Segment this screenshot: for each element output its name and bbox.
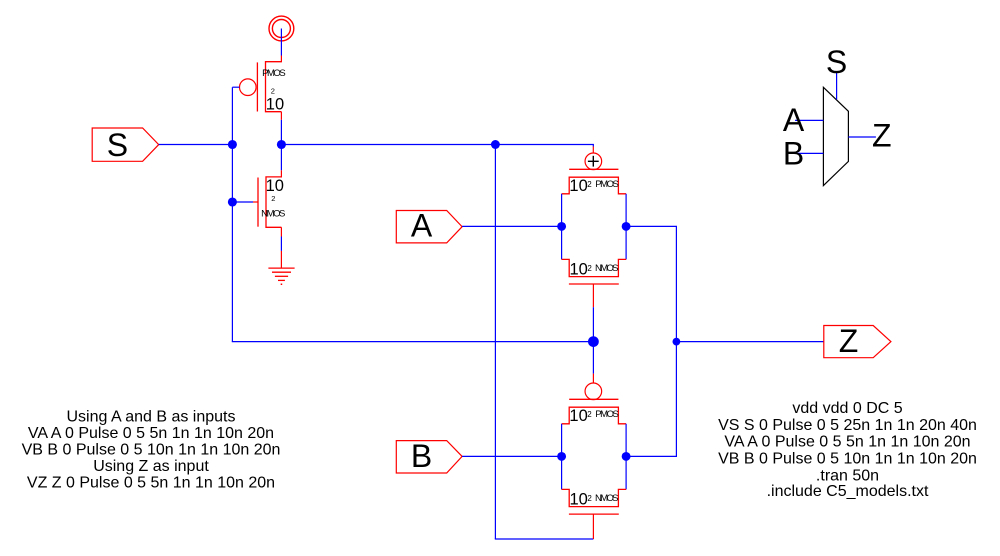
wire B gate left rail	[561, 424, 563, 490]
svg-text:NMOS: NMOS	[595, 493, 619, 504]
node S to AN/BP gates junction	[588, 336, 599, 347]
wire Sbar bottom horizontal	[495, 538, 594, 540]
svg-text:A: A	[783, 102, 805, 138]
wire S line down to B gate pmos bubble	[592, 342, 594, 383]
note block left	[22, 408, 281, 491]
svg-text:2: 2	[271, 194, 275, 203]
transistor M1 PMOS (inverter pull-up)	[240, 62, 282, 112]
svg-text:PMOS: PMOS	[595, 179, 619, 190]
svg-text:B: B	[411, 438, 432, 474]
wire B flag to transmission gate	[462, 455, 561, 457]
wire M4 gate to S line	[592, 284, 594, 342]
flag Z output	[824, 323, 891, 359]
wire M2 source to ground	[280, 227, 282, 268]
node inverter output	[277, 140, 286, 149]
svg-text:PMOS: PMOS	[262, 68, 286, 79]
svg-text:NMOS: NMOS	[261, 209, 285, 220]
svg-text:10: 10	[569, 407, 587, 425]
svg-text:2: 2	[271, 86, 275, 95]
wire S flag to gate line	[159, 144, 233, 146]
transistor M2 NMOS (inverter pull-down)	[258, 145, 281, 228]
wire Z junction to flag	[676, 341, 823, 343]
transistor M5 PMOS (transmission gate B)	[562, 383, 627, 424]
svg-text:Z: Z	[872, 117, 892, 153]
svg-text:2: 2	[587, 180, 592, 189]
ground	[268, 268, 294, 285]
svg-text:Using A and B as inputs: Using A and B as inputs	[67, 408, 236, 425]
node M2 gate junction	[228, 197, 237, 206]
svg-text:VZ Z 0 Pulse 0 5 5n 1n 1n 10n: VZ Z 0 Pulse 0 5 5n 1n 1n 10n 20n	[27, 474, 275, 491]
svg-text:2: 2	[587, 494, 592, 503]
flag A input	[396, 208, 462, 244]
node A right junction	[622, 222, 631, 231]
svg-text:VS S 0 Pulse 0 5 25n 1n 1n 20n: VS S 0 Pulse 0 5 25n 1n 1n 20n 40n	[718, 417, 977, 434]
node S junction	[228, 140, 237, 149]
flag S input	[92, 127, 159, 163]
wire mux Z pin	[848, 136, 876, 138]
svg-text:S: S	[107, 127, 128, 163]
svg-text:vdd vdd 0 DC 5: vdd vdd 0 DC 5	[792, 400, 902, 417]
wire A flag to transmission gate	[462, 225, 561, 227]
mux symbol U1	[823, 87, 848, 185]
wire M6 gate down to Sbar bottom	[592, 514, 594, 539]
wire vdd to M1 source	[280, 29, 282, 63]
wire B gate right rail	[625, 424, 627, 490]
transistor M4 NMOS (transmission gate A)	[562, 259, 627, 284]
wire Sbar down to A gate pmos bubble	[592, 145, 594, 154]
wire S line to transmission gates	[232, 341, 594, 343]
svg-text:A: A	[411, 208, 433, 244]
wire A gate left rail	[561, 194, 563, 260]
svg-text:.include C5_models.txt: .include C5_models.txt	[767, 483, 929, 500]
svg-text:B: B	[783, 135, 804, 171]
wire S vertical gate line	[231, 87, 233, 341]
svg-text:VA A 0 Pulse 0 5 5n 1n 1n 10n: VA A 0 Pulse 0 5 5n 1n 1n 10n 20n	[28, 425, 274, 442]
wire mux B pin	[795, 152, 823, 154]
wire A gate right rail	[625, 194, 627, 260]
node Sbar branch	[491, 140, 500, 149]
node Z junction	[673, 338, 681, 346]
svg-text:10: 10	[569, 177, 587, 195]
node plus marker on M3 bubble	[588, 156, 599, 167]
svg-text:VB B 0 Pulse 0 5 10n 1n 1n 10n: VB B 0 Pulse 0 5 10n 1n 1n 10n 20n	[22, 442, 281, 459]
transistor M6 NMOS (transmission gate B)	[562, 489, 627, 514]
svg-text:2: 2	[587, 264, 592, 273]
svg-text:2: 2	[587, 410, 592, 419]
svg-text:S: S	[826, 44, 847, 80]
wire mux S pin	[836, 73, 838, 100]
wire Z output rail	[675, 226, 677, 456]
wire B gate output	[626, 455, 677, 457]
svg-text:Using Z as input: Using Z as input	[93, 458, 209, 475]
node A left junction	[557, 222, 566, 231]
wire M2 gate stub	[232, 201, 258, 203]
svg-text:VA A 0 Pulse 0 5 5n 1n 1n 10n: VA A 0 Pulse 0 5 5n 1n 1n 10n 20n	[724, 434, 970, 451]
svg-text:10: 10	[266, 177, 284, 195]
svg-text:10: 10	[266, 95, 284, 113]
svg-text:VB B 0 Pulse 0 5 10n 1n 1n 10n: VB B 0 Pulse 0 5 10n 1n 1n 10n 20n	[718, 450, 977, 467]
svg-text:.tran 50n: .tran 50n	[816, 468, 879, 485]
svg-text:10: 10	[570, 260, 588, 278]
wire A gate output	[626, 225, 677, 227]
wire M1 drain to output node	[280, 112, 282, 145]
wire mux A pin	[795, 119, 823, 121]
wire M1 gate stub	[232, 86, 239, 88]
svg-text:PMOS: PMOS	[595, 409, 619, 420]
wire inverter output to A gate pmos	[281, 144, 594, 146]
wire Sbar branch vertical	[494, 145, 496, 540]
vdd power symbol	[269, 16, 294, 41]
transistor M3 PMOS (transmission gate A)	[562, 153, 627, 194]
flag B input	[396, 438, 462, 474]
node B left junction	[557, 452, 566, 461]
svg-text:NMOS: NMOS	[595, 263, 619, 274]
note block right	[718, 400, 977, 500]
svg-text:Z: Z	[839, 323, 859, 359]
svg-text:10: 10	[570, 490, 588, 508]
node B right junction	[622, 452, 631, 461]
